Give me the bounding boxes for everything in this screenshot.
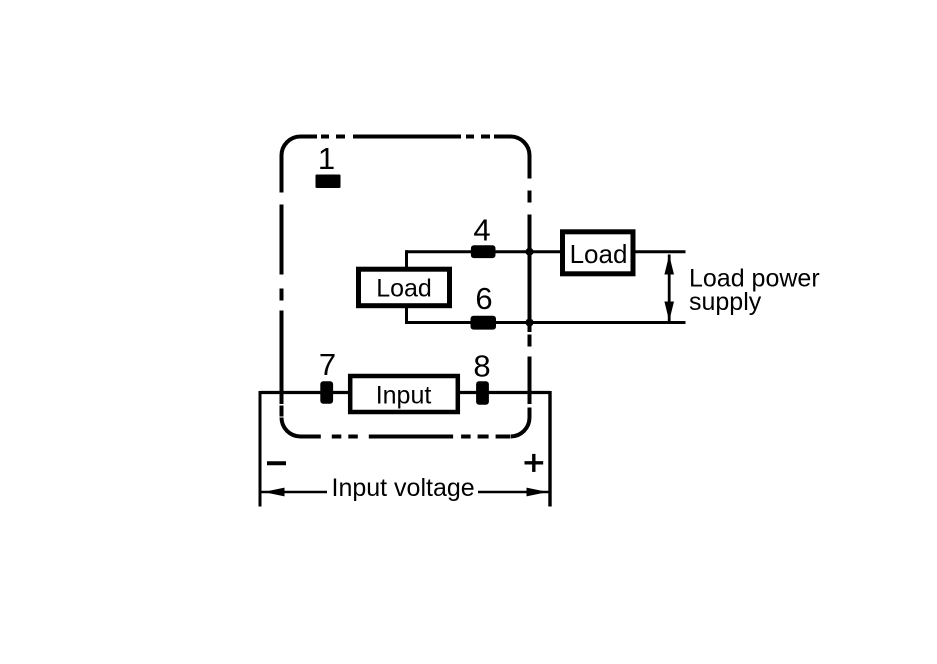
svg-text:Input voltage: Input voltage [332,474,475,502]
wire: input line (pin 7 to pin 8 through Input box) [260,391,550,394]
junction: pin 6 line crosses outline [526,319,534,327]
plus polarity mark [525,454,544,472]
wire: outline crossing tick at pin 4 line [528,243,532,261]
svg-text:6: 6 [475,281,492,316]
wire: outline crossing tick at pin 6 line [528,314,532,332]
svg-text:Load: Load [570,239,628,269]
pin 1 pad [316,175,341,189]
relay outline (dash-dot enclosure) [282,137,530,437]
svg-text:supply: supply [689,288,762,316]
wire: outline crossing tick at pin 8 line [528,381,532,404]
input box [350,376,458,412]
svg-text:Input: Input [376,382,432,410]
dimension arrow: input voltage right [478,488,549,497]
wire: stub from internal load down to pin 6 line [405,306,408,324]
wire: outline crossing tick at pin 7 line [280,381,284,404]
wire: load power supply plus line [633,250,686,253]
svg-text:4: 4 [473,213,490,248]
svg-text:1: 1 [318,141,335,176]
pin 8 pad [476,381,489,405]
pin 4 pad [471,245,496,258]
junction: pin 4 line crosses outline [526,248,534,256]
wire: pin 6 output line (load power supply minus line) [406,321,686,324]
svg-text:Load: Load [376,275,432,303]
svg-text:8: 8 [473,349,490,384]
minus polarity mark [267,461,286,465]
dimension arrow: input voltage left [262,488,328,497]
load box L1 (internal load) [359,269,450,306]
pin 7 pad [320,381,333,403]
svg-text:7: 7 [319,347,336,382]
wire: input voltage source left lead [259,391,262,507]
pin 6 pad [471,316,497,330]
wire: input voltage source right lead [548,391,551,507]
load box L2 (external load) [563,232,634,274]
wire: stub from pin 4 line down to internal load [405,250,408,269]
dimension arrow: load power supply (vertical, double headed) [664,255,674,322]
wire: pin 4 output line [406,250,562,253]
